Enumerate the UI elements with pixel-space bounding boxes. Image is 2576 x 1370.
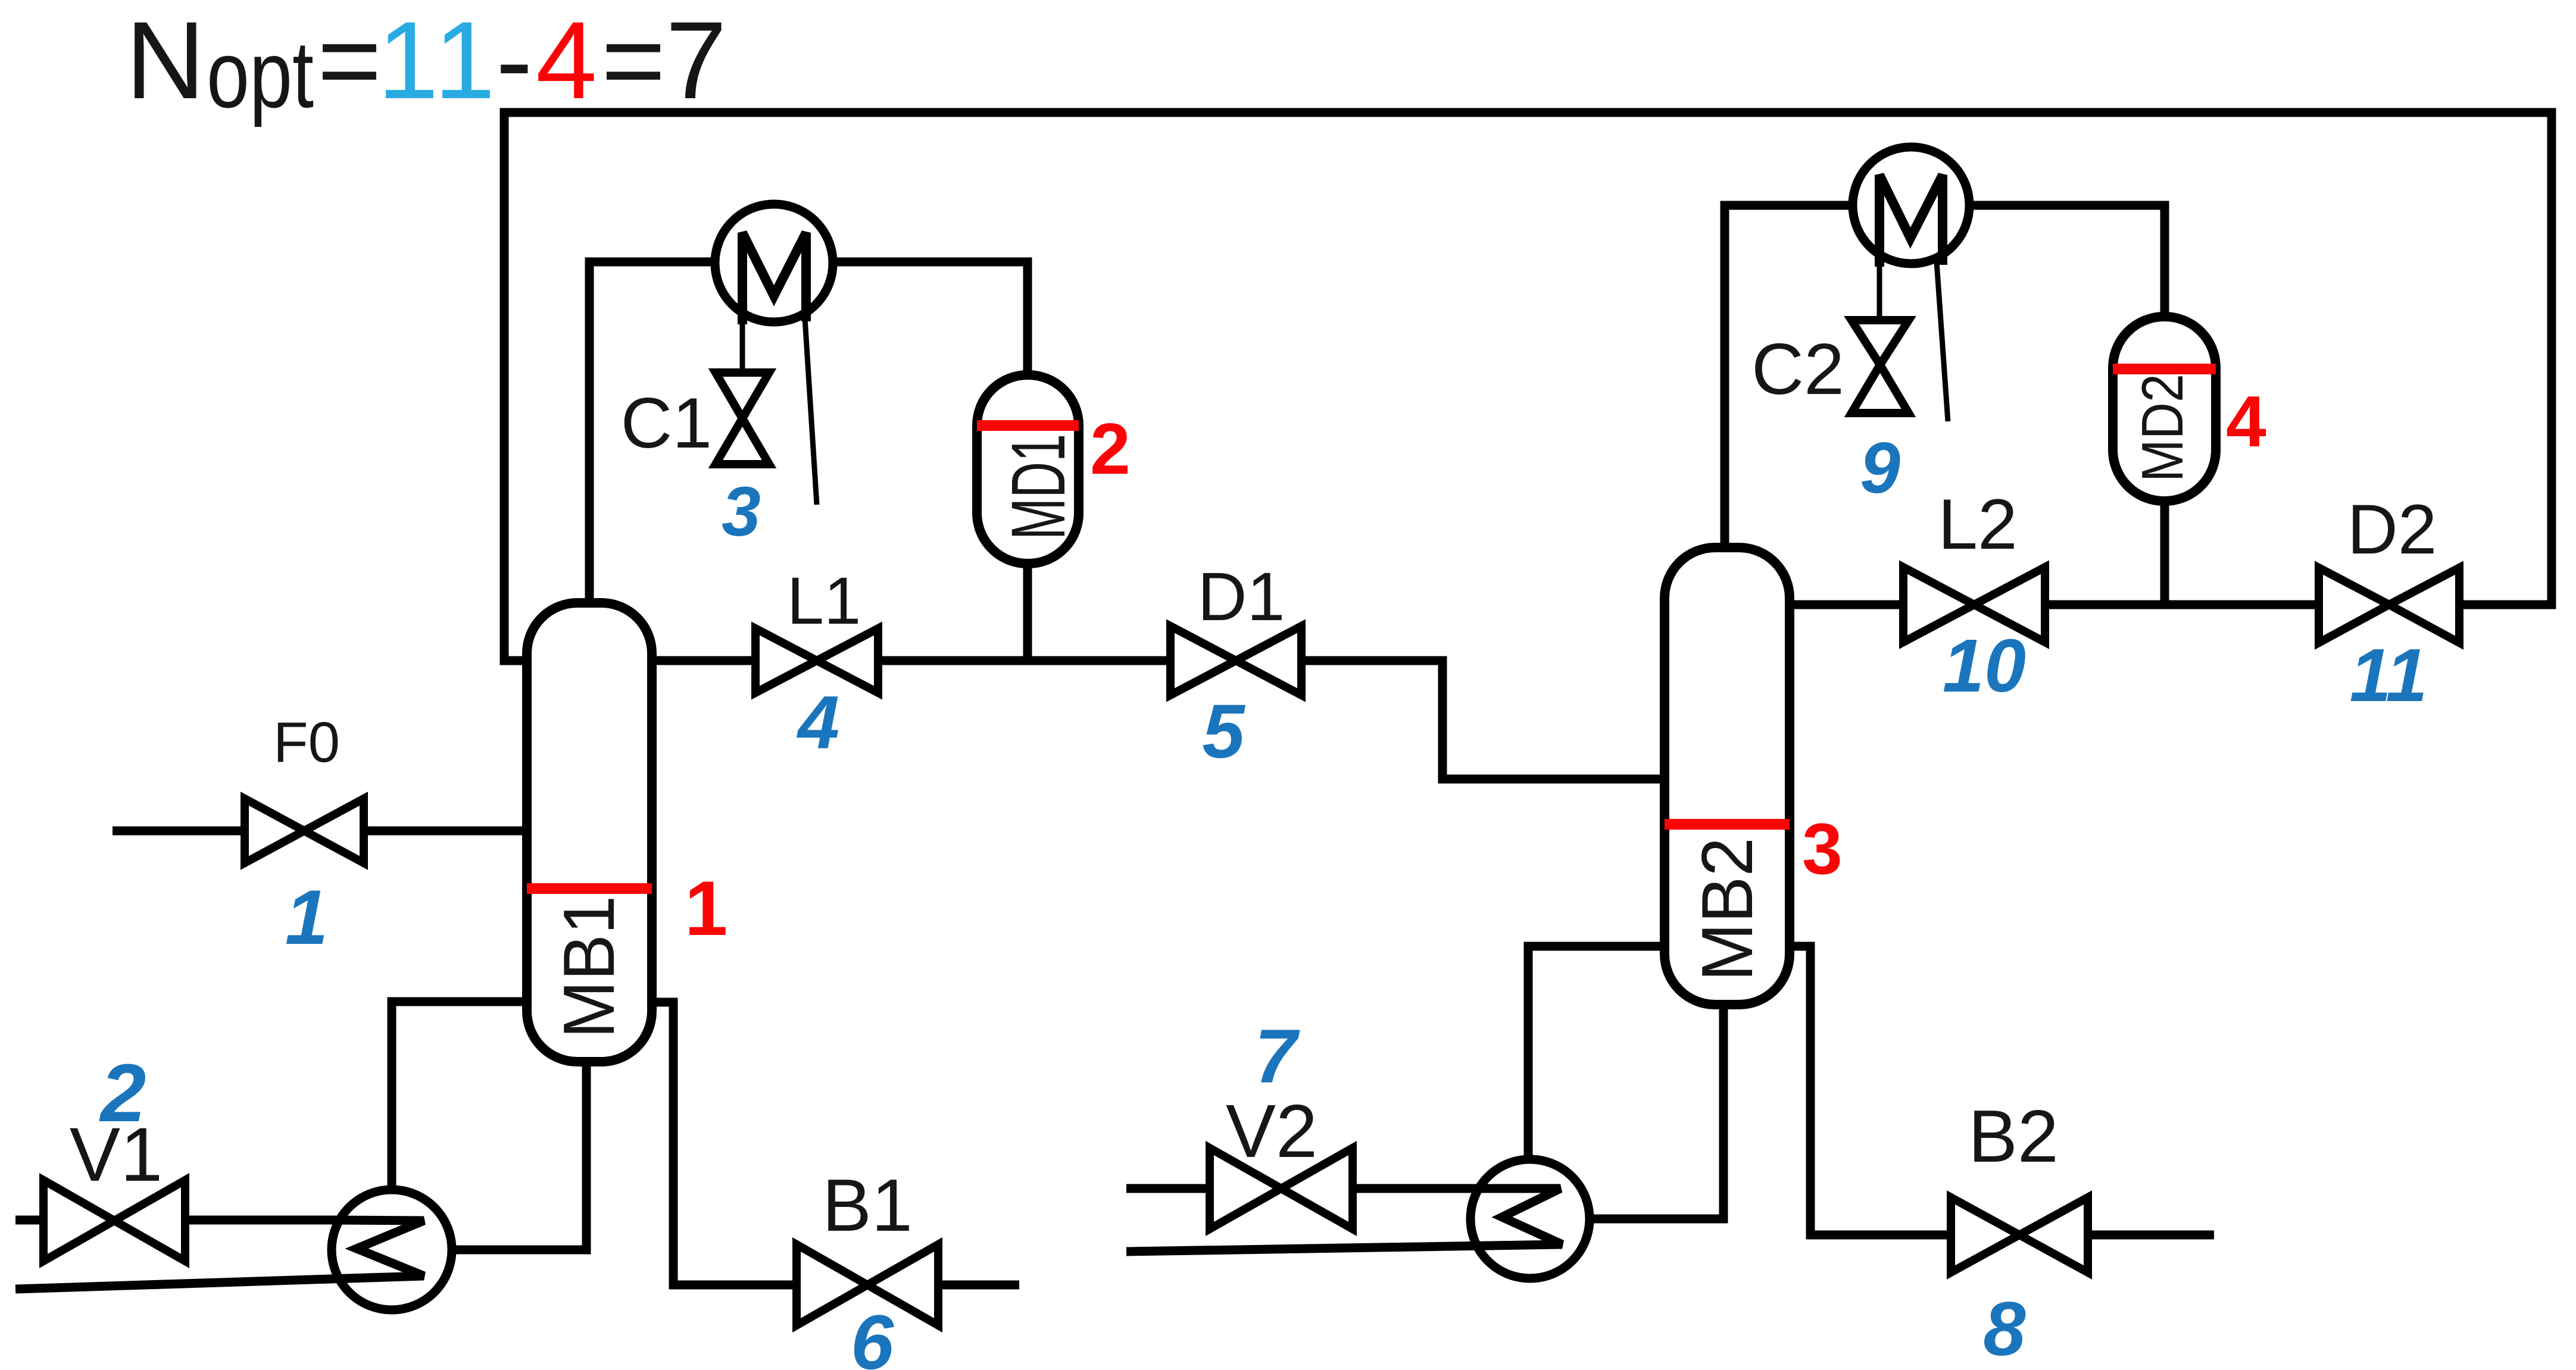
svg-text:N: N xyxy=(126,0,205,122)
condenser E2 xyxy=(1853,147,1969,264)
column MB2 xyxy=(1665,548,1790,1005)
valve V1 xyxy=(43,1180,185,1261)
svg-text:F0: F0 xyxy=(273,711,340,774)
reboiler R2 xyxy=(1470,1159,1590,1278)
svg-text:1: 1 xyxy=(285,874,328,961)
svg-text:MB2: MB2 xyxy=(1687,837,1768,981)
svg-text:C1: C1 xyxy=(621,383,712,463)
svg-text:B2: B2 xyxy=(1968,1096,2059,1178)
red stage line 3 on MB2 xyxy=(1665,819,1790,830)
wire MB2 riser to condenser 2 xyxy=(1725,205,1854,556)
svg-text:4: 4 xyxy=(2226,381,2266,462)
svg-text:C2: C2 xyxy=(1751,329,1844,409)
wire MD1 bottom to L1-D1 line xyxy=(1023,553,1032,661)
valve C1 vertical xyxy=(716,373,769,464)
svg-text:=: = xyxy=(601,0,666,122)
valve B1 xyxy=(797,1244,938,1325)
wire MB2 bottoms to B2 xyxy=(1784,946,2214,1235)
svg-text:2: 2 xyxy=(99,1047,146,1139)
wire MB2 reboiler return xyxy=(1528,946,1671,1162)
valve C2 vertical xyxy=(1851,320,1909,413)
valve D2 xyxy=(2319,568,2459,643)
svg-text:MD2: MD2 xyxy=(2130,374,2195,482)
wire MB1 bottoms to B1 xyxy=(649,1002,1019,1285)
wire reboiler2 outlet to MB2 bottom xyxy=(1587,997,1723,1219)
wire V2 heating line xyxy=(1126,1184,1560,1193)
valve F0 xyxy=(245,799,364,863)
wire V1 heating line xyxy=(15,1216,411,1225)
drum MD1 xyxy=(977,375,1079,564)
wire MD2 bottom to L2-D2 line xyxy=(2160,491,2169,605)
wire L1 line MB1 to D1 to MB2 feed xyxy=(650,661,1673,779)
svg-text:L1: L1 xyxy=(787,564,861,638)
wire recycle outer loop D2 to MB1 xyxy=(504,112,2552,661)
reboiler R1 coil xyxy=(15,1220,424,1289)
svg-text:B1: B1 xyxy=(822,1165,913,1247)
svg-text:6: 6 xyxy=(851,1299,894,1370)
wire reboiler1 outlet to MB1 bottom xyxy=(451,1053,586,1250)
svg-text:7: 7 xyxy=(666,0,727,122)
svg-text:8: 8 xyxy=(1983,1287,2025,1370)
svg-text:=: = xyxy=(317,0,382,122)
red stage line 4 on MD2 xyxy=(2113,364,2216,374)
title Nopt=11-4=7 xyxy=(126,0,727,127)
wire MB1 reboiler return xyxy=(392,1002,530,1193)
column MB1 xyxy=(527,603,652,1062)
wire condenser2 to MD2 xyxy=(1968,205,2165,330)
svg-text:MB1: MB1 xyxy=(548,896,629,1039)
svg-text:3: 3 xyxy=(722,473,761,551)
red stage line 1 on MB1 xyxy=(527,883,652,894)
svg-text:4: 4 xyxy=(536,0,597,122)
svg-text:1: 1 xyxy=(434,0,495,122)
svg-text:1: 1 xyxy=(685,865,727,952)
red stage line 2 on MD1 xyxy=(977,420,1079,431)
svg-text:9: 9 xyxy=(1860,427,1900,508)
reboiler R2 coil xyxy=(1126,1188,1562,1252)
wire F0 feed line xyxy=(113,827,530,836)
svg-text:1: 1 xyxy=(377,0,439,122)
valve L1 xyxy=(755,628,878,693)
svg-text:-: - xyxy=(496,0,533,122)
wire condenser1 to MD1 xyxy=(832,262,1028,387)
wire MB1 riser to condenser 1 xyxy=(589,262,716,613)
svg-text:7: 7 xyxy=(1254,1014,1300,1099)
svg-text:5: 5 xyxy=(1202,689,1245,774)
svg-text:MD1: MD1 xyxy=(996,434,1081,540)
valve V2 xyxy=(1210,1148,1353,1229)
svg-text:4: 4 xyxy=(796,680,839,764)
condenser E1 xyxy=(715,204,833,322)
svg-text:11: 11 xyxy=(2350,633,2428,717)
condenser E2 M glyph xyxy=(1879,175,1943,267)
drum MD2 xyxy=(2113,317,2216,501)
svg-text:L2: L2 xyxy=(1938,484,2017,564)
svg-text:3: 3 xyxy=(1802,808,1843,889)
condenser E1 M glyph xyxy=(742,233,806,324)
valve B2 xyxy=(1951,1197,2088,1272)
reboiler R1 xyxy=(332,1190,452,1310)
svg-text:10: 10 xyxy=(1943,624,2026,708)
svg-text:V2: V2 xyxy=(1226,1089,1317,1173)
valve L2 xyxy=(1903,567,2045,642)
svg-text:D1: D1 xyxy=(1197,559,1285,635)
valve D1 xyxy=(1170,626,1301,695)
svg-text:opt: opt xyxy=(207,21,314,127)
wire L2 line MB2 to D2 xyxy=(1786,600,2320,609)
svg-text:2: 2 xyxy=(1090,408,1131,489)
svg-text:D2: D2 xyxy=(2347,490,2437,569)
